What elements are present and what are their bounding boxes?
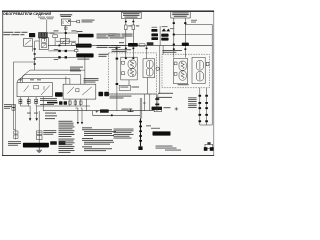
wire B chain vertical [76, 37, 85, 70]
bottom right text lines [156, 146, 182, 151]
center seat heater box (dashed) [109, 53, 157, 94]
text below B3 [70, 59, 89, 72]
junction symbol on bus [128, 109, 134, 112]
plus connector mark [175, 107, 178, 110]
connector box [77, 20, 80, 23]
connector marks on stepped wires [58, 50, 67, 59]
text block right of left box [40, 98, 58, 105]
down arrow 4 [81, 122, 83, 124]
wire horizontal y34.4 [174, 33, 212, 35]
junction component near bus x146 [147, 42, 154, 45]
small component right of inner box RR [206, 62, 209, 65]
relay K1 hatched box [38, 32, 47, 38]
main bus y45.6 [48, 45, 212, 47]
small dark labels right of blob [50, 141, 65, 145]
wires below left box [20, 97, 43, 111]
left switch box SW2 [17, 83, 52, 97]
junction tick on main bus [59, 45, 61, 47]
wires to down arrows left [20, 106, 36, 118]
wires inside center seat box [129, 46, 148, 94]
label top small [38, 17, 54, 19]
connector marks on right pin wires [199, 95, 208, 122]
text right of B3 [99, 54, 109, 57]
small box left of B2 [72, 43, 75, 46]
left vertical x34.7 [34, 41, 40, 70]
wire label to relay K1 [46, 20, 48, 33]
blob left of center box [55, 92, 63, 96]
note text right of B2 [97, 45, 127, 48]
wire horizontal y24.4 [185, 23, 212, 25]
connector ticks below fuse box [125, 21, 134, 23]
connector marks below center box [69, 101, 83, 104]
text below center seat box [110, 96, 132, 99]
wire small component lead [54, 38, 56, 46]
wire right bus vertical [211, 24, 213, 125]
wire ignition to note [71, 21, 78, 23]
label right of relay block box [191, 20, 197, 23]
wire flasher down [33, 37, 45, 51]
inner connector box RR [192, 57, 205, 83]
switch S2 with diagonal [24, 39, 33, 47]
title above center seat box [112, 49, 132, 52]
legend text column 2 [82, 127, 116, 151]
bottom bus y106 [37, 105, 90, 107]
connector glyph cluster left column [151, 29, 158, 40]
black label blob B2 [76, 44, 92, 48]
wire right block v2 [184, 18, 186, 58]
bottom-right connector drawing [204, 142, 214, 151]
center switch box SW3 [63, 84, 96, 99]
double wire below center box right [155, 94, 159, 111]
text right of heater component [43, 130, 56, 135]
title [3, 12, 51, 16]
ground symbol [36, 148, 42, 153]
C4 label box [122, 109, 162, 112]
left bottom component chain [13, 130, 18, 140]
right seat heater box (dashed) [162, 54, 210, 88]
small component [53, 35, 58, 38]
left long vertical x13.4 [13, 62, 34, 130]
blobs below center box [59, 101, 67, 105]
text block left bottom [4, 104, 12, 109]
junction blob on bus right [182, 43, 189, 46]
heater element L2 [128, 68, 136, 76]
inner connector box RL [173, 59, 187, 84]
wires below center seat box [143, 94, 150, 111]
wire label 15A [50, 33, 55, 34]
title above right seat box [162, 50, 182, 53]
wires below center box [70, 99, 86, 111]
wire through center box left [116, 46, 119, 111]
connector ticks below main bus [116, 48, 187, 50]
inner connector box R [143, 59, 155, 78]
note text right of ignition [82, 20, 95, 23]
wires to down arrows center [75, 108, 82, 122]
down arrow 3 [77, 122, 79, 124]
thick connector wire center bottom [138, 98, 142, 150]
connector glyph cluster right column [161, 28, 170, 40]
label inside right seat box [178, 84, 189, 85]
label above relay [40, 35, 48, 38]
wire label left of fuse wires [109, 33, 125, 43]
page scan background [2, 11, 214, 156]
heater component center-left bottom [37, 111, 43, 143]
junction blob near C4 [152, 107, 171, 110]
connector on left vertical wire [12, 104, 16, 129]
black bar blob bottom center [153, 131, 171, 135]
junction on bus y110.7 [96, 109, 109, 112]
connector ticks at inner box top [125, 58, 134, 60]
lower horizontals y70.1 y74.7 y78.6 [20, 70, 85, 79]
wire y115.3 [93, 111, 141, 117]
note text right of B1 [97, 34, 133, 39]
down arrow 1 [29, 118, 32, 121]
ignition switch SW1 [62, 19, 71, 26]
page frame border [2, 11, 214, 155]
heater relay K2 [39, 38, 48, 50]
fuse block label box [122, 12, 142, 18]
flasher blob [29, 33, 35, 37]
ignition switch label [60, 14, 72, 17]
diagonal bends into left switch box [18, 70, 85, 84]
wire labels near stepped wires [54, 49, 59, 60]
text block left of thick wire [114, 129, 134, 139]
tiny labels near glyphs [152, 26, 175, 29]
flasher label text left [3, 32, 27, 35]
connector marks on right wires [173, 22, 187, 45]
down arrow 2 [35, 118, 38, 121]
stepped wire y57.3 [35, 56, 77, 58]
text left of blob [8, 141, 21, 146]
heater element RL1 [179, 61, 186, 70]
wire ignition vertical [64, 26, 67, 46]
center box bottom edge solid [109, 93, 157, 95]
label above black bar [146, 125, 160, 128]
wire bus y33 [44, 32, 78, 34]
wire right block v1 [173, 18, 175, 58]
legend text column 1 [45, 113, 75, 153]
heater element RL2 [179, 71, 186, 80]
inner connector box L [121, 57, 137, 80]
connector marks below left box [19, 99, 38, 103]
wire fuse1 vertical [125, 19, 127, 58]
text block left of right pin wires [188, 97, 197, 108]
label box inside center seat box [119, 85, 139, 90]
black label blob B1 [78, 34, 94, 38]
thermostat RR1 [196, 61, 203, 71]
fuse F1 [125, 25, 132, 30]
big black blob bottom left [23, 143, 49, 148]
stepped wire y51.4 [48, 50, 74, 52]
wire labels near arrows [27, 112, 38, 115]
long verticals between seat boxes [160, 46, 163, 94]
wire labels on bus y33 [54, 30, 83, 32]
heater element L1 [128, 60, 136, 68]
bottom bus y110.7 [43, 110, 154, 112]
thermostat RR2 [196, 72, 203, 81]
corner blob center box [104, 93, 108, 96]
wire fuse2 vertical [132, 19, 134, 58]
relay block label box right [171, 11, 190, 18]
thermostat R2 [146, 68, 153, 76]
fuse F2 [132, 25, 139, 30]
wire between glyph clusters [159, 26, 161, 46]
sensor circle [156, 67, 159, 70]
wires below right seat box [200, 88, 212, 125]
connector small box [75, 49, 78, 51]
component on wire y41 [56, 39, 76, 44]
title above center box [84, 78, 99, 83]
black label blob B3 [76, 53, 93, 57]
text below right seat box [156, 93, 173, 98]
svg-text:ОБОГРЕВАТЕЛИ СИДЕНИЙ: ОБОГРЕВАТЕЛИ СИДЕНИЙ [3, 12, 51, 16]
wire labels above left box [18, 78, 41, 81]
junction blob on bus center [128, 43, 145, 47]
blob right of center box [99, 92, 109, 96]
thermostat R1 [146, 60, 153, 68]
